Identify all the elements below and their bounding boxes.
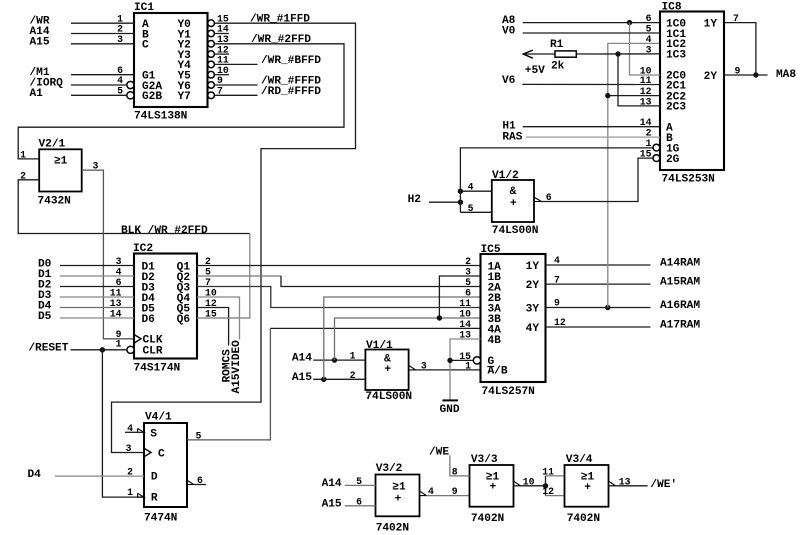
wire A16RAM riser to IC8 1C2 bbox=[608, 43, 660, 307]
svg-text:1: 1 bbox=[646, 138, 652, 149]
svg-text:A1: A1 bbox=[30, 88, 44, 100]
wire R1 riser to 2C3 bbox=[618, 54, 660, 106]
junction A8 bbox=[627, 20, 632, 25]
svg-text:+: + bbox=[584, 482, 591, 494]
svg-text:9: 9 bbox=[452, 486, 458, 497]
V3/2 output flag pin 4 wire to V3/3 pin 9 bbox=[420, 486, 470, 497]
nor-gate V3/3 7402N bbox=[470, 454, 514, 525]
svg-text:4: 4 bbox=[468, 182, 474, 193]
node A8 wire to IC8 1C0 bbox=[502, 15, 660, 27]
svg-text:/RD_#FFFD: /RD_#FFFD bbox=[261, 86, 321, 98]
nor-gate V3/4 7402N bbox=[565, 454, 609, 525]
node /M1 wire to IC1 pin 6 bbox=[30, 67, 135, 79]
node A14 wire to V3/2 pin 5 bbox=[322, 476, 376, 490]
junction G bbox=[447, 358, 452, 363]
multiplexer IC8 74LS253N body bbox=[660, 2, 724, 186]
node ROMCS vertical label bbox=[222, 349, 234, 383]
svg-text:74S174N: 74S174N bbox=[134, 362, 181, 374]
svg-text:A16RAM: A16RAM bbox=[660, 300, 700, 312]
node A15 wire to IC1 pin 3 bbox=[30, 36, 135, 48]
svg-text:5: 5 bbox=[468, 203, 474, 214]
svg-text:G2B: G2B bbox=[142, 91, 162, 103]
svg-text:MA8: MA8 bbox=[776, 69, 796, 81]
svg-text:2Y: 2Y bbox=[526, 280, 540, 292]
node V0 wire to IC8 1C1 bbox=[502, 26, 660, 38]
svg-text:4Y: 4Y bbox=[526, 323, 540, 335]
node H2 label and wire bbox=[408, 194, 461, 206]
svg-text:R1: R1 bbox=[550, 39, 564, 51]
svg-text:2C3: 2C3 bbox=[666, 102, 686, 114]
svg-text:≥1: ≥1 bbox=[54, 155, 68, 167]
node A14 wire to IC1 pin 2 bbox=[30, 26, 135, 38]
node /WE' label bbox=[650, 479, 677, 491]
svg-text:8: 8 bbox=[452, 467, 458, 478]
svg-text:V3/2: V3/2 bbox=[376, 463, 403, 475]
node A14 wire to V1/1 pin 1 bbox=[292, 351, 366, 365]
svg-text:3: 3 bbox=[126, 443, 132, 454]
node D5 wire to IC2 bbox=[38, 311, 134, 323]
ground symbol GND bbox=[440, 400, 460, 416]
svg-text:V4/1: V4/1 bbox=[145, 412, 172, 424]
wire V2/1 output pin 3 to IC2 CLK bbox=[82, 170, 134, 339]
node A15 wire to V3/2 pin 6 bbox=[322, 496, 376, 510]
svg-text:7402N: 7402N bbox=[471, 513, 504, 525]
net /WR_#BFFD wire from Y4 bbox=[214, 55, 321, 67]
IC1 input bubbles G2A G2B bbox=[127, 81, 134, 99]
svg-text:1: 1 bbox=[127, 487, 133, 498]
svg-text:A15RAM: A15RAM bbox=[660, 277, 700, 289]
svg-text:D5: D5 bbox=[38, 311, 52, 323]
or-gate V2/1 7432N bbox=[38, 139, 82, 208]
svg-text:4B: 4B bbox=[488, 335, 502, 347]
svg-text:CLR: CLR bbox=[143, 346, 163, 358]
IC8 left pin numbers bbox=[640, 13, 652, 160]
node /WE label and wire to V3/3 pin 8 bbox=[429, 446, 470, 477]
svg-text:74LS00N: 74LS00N bbox=[492, 225, 539, 237]
svg-text:D6: D6 bbox=[142, 314, 156, 326]
resistor R1 2k bbox=[550, 39, 576, 72]
wire Q1 to IC5 1A bbox=[197, 265, 481, 267]
svg-text:10: 10 bbox=[459, 309, 471, 320]
svg-text:R: R bbox=[151, 493, 158, 505]
svg-text:74LS138N: 74LS138N bbox=[134, 111, 187, 123]
IC1 left pin numbers 1 2 3 6 4 5 bbox=[117, 13, 123, 96]
wire Q3 to IC5 3A bbox=[197, 287, 481, 308]
svg-text:4: 4 bbox=[646, 34, 652, 45]
svg-text:A15: A15 bbox=[292, 372, 312, 384]
IC1 output bubbles Y0-Y7 bbox=[208, 20, 215, 99]
svg-text:A15: A15 bbox=[322, 499, 342, 511]
svg-text:5: 5 bbox=[356, 476, 362, 487]
svg-text:IC2: IC2 bbox=[133, 243, 153, 255]
svg-text:BLK /WR_#2FFD: BLK /WR_#2FFD bbox=[121, 225, 208, 237]
svg-text:2k: 2k bbox=[551, 60, 565, 72]
V4/1 pin number 4 and stub bbox=[125, 423, 138, 434]
svg-text:IC1: IC1 bbox=[134, 2, 154, 14]
node D0 wire to IC2 bbox=[38, 258, 134, 270]
svg-text:2: 2 bbox=[465, 256, 471, 267]
svg-text:74LS257N: 74LS257N bbox=[482, 386, 535, 398]
svg-text:74LS00N: 74LS00N bbox=[365, 391, 412, 403]
nor-gate V3/2 7402N bbox=[376, 463, 420, 535]
wire A15 riser to IC5 2B bbox=[324, 297, 481, 379]
svg-text:+: + bbox=[395, 494, 402, 506]
svg-text:10: 10 bbox=[523, 476, 535, 487]
svg-text:RAS: RAS bbox=[502, 132, 522, 144]
svg-text:11: 11 bbox=[542, 467, 554, 478]
svg-text:7432N: 7432N bbox=[38, 196, 71, 208]
wire Q6 to BLK riser bbox=[197, 317, 250, 319]
V2/1 pin number 3 bbox=[93, 160, 99, 171]
net /WR_#1FFD wire from Y0 to V4 clock bbox=[112, 14, 356, 453]
svg-text:+: + bbox=[510, 198, 517, 210]
svg-text:2G: 2G bbox=[666, 154, 680, 166]
V3/4 output flag pin 13 wire to /WE2 bbox=[609, 476, 648, 487]
node D1 wire to IC2 bbox=[38, 269, 134, 281]
net MA8 wire from IC8 2Y bbox=[724, 69, 796, 81]
IC8 1G 2G bubbles bbox=[653, 144, 660, 161]
node H1 wire to IC8 A bbox=[502, 121, 660, 133]
svg-text:ROMCS: ROMCS bbox=[222, 349, 234, 383]
svg-text:V1/2: V1/2 bbox=[492, 170, 519, 182]
wire stub Y5 bbox=[214, 74, 229, 76]
svg-text:6: 6 bbox=[465, 288, 471, 299]
svg-text:V0: V0 bbox=[502, 26, 516, 38]
svg-text:A14: A14 bbox=[322, 478, 342, 490]
wire A8 riser to 2C0 bbox=[630, 23, 661, 75]
svg-text:C: C bbox=[158, 448, 165, 460]
wire IC8 1Y to 2Y bbox=[724, 23, 756, 75]
IC2 pin number 9 CLK bbox=[116, 329, 122, 340]
svg-text:12: 12 bbox=[542, 486, 554, 497]
svg-text:A14: A14 bbox=[292, 353, 312, 365]
svg-text:/WR_#BFFD: /WR_#BFFD bbox=[261, 55, 321, 67]
junction R1 net bbox=[615, 51, 620, 56]
wire A14 riser to IC5 3B bbox=[335, 318, 481, 360]
wire H2 riser to IC8 1G bbox=[460, 148, 653, 212]
svg-text:1: 1 bbox=[20, 150, 26, 161]
node D4 wire to IC2 bbox=[38, 300, 134, 312]
svg-text:5: 5 bbox=[465, 277, 471, 288]
multiplexer IC5 74LS257N body bbox=[481, 244, 546, 398]
svg-text:1: 1 bbox=[116, 338, 122, 349]
wire /RESET riser to V4 R pin bbox=[102, 350, 144, 497]
junction V3/4 inputs bbox=[543, 483, 548, 488]
net /WR_#2FFD wire from Y2 to V2 pin 1 bbox=[18, 34, 344, 159]
IC2 CLR bubble bbox=[127, 346, 134, 353]
svg-text:15: 15 bbox=[640, 149, 652, 160]
svg-text:1C3: 1C3 bbox=[666, 50, 686, 62]
svg-text:D: D bbox=[151, 472, 158, 484]
svg-text:3: 3 bbox=[421, 360, 427, 371]
wire 2C2 to A16RAM riser bbox=[608, 95, 660, 97]
svg-text:4: 4 bbox=[428, 486, 434, 497]
svg-text:+5V: +5V bbox=[525, 65, 545, 77]
node /IORQ wire to IC1 pin 4 bbox=[30, 78, 127, 90]
node D3 wire to IC2 bbox=[38, 290, 134, 302]
wire IC5 G pin to ground riser bbox=[450, 359, 473, 361]
wire BLK net riser to IC2 Q6 bbox=[197, 234, 250, 319]
svg-text:D4: D4 bbox=[28, 469, 42, 481]
IC2 left pin numbers 3 4 6 11 13 14 bbox=[110, 256, 122, 320]
junction pin4 bbox=[458, 189, 463, 194]
net /WR_#FFFD wire from Y6 bbox=[214, 76, 321, 88]
svg-text:74LS253N: 74LS253N bbox=[662, 173, 715, 185]
svg-text:11: 11 bbox=[459, 298, 471, 309]
node /WR wire to IC1 pin 1 bbox=[30, 16, 135, 28]
nand-gate V1/2 74LS00N bbox=[492, 170, 539, 237]
svg-text:≥1: ≥1 bbox=[392, 482, 406, 494]
svg-text:+: + bbox=[490, 482, 497, 494]
wire R1 to IC8 1C3 bbox=[576, 53, 660, 55]
svg-text:3Y: 3Y bbox=[526, 303, 540, 315]
IC5 left pin numbers bbox=[459, 256, 471, 371]
power +5V arrow symbol bbox=[523, 50, 555, 77]
junction A15 bbox=[321, 377, 326, 382]
svg-text:/WE': /WE' bbox=[650, 479, 677, 491]
wire V1/2 pin 5 bbox=[460, 203, 491, 214]
IC8 right pin number 9 bbox=[735, 66, 741, 77]
svg-text:7474N: 7474N bbox=[144, 513, 177, 525]
V4 output pin 6 stub with inverter flag bbox=[187, 475, 206, 486]
svg-text:&: & bbox=[510, 186, 517, 198]
svg-text:7402N: 7402N bbox=[376, 523, 409, 535]
node /RESET label and wire to IC2 CLR bbox=[28, 342, 127, 354]
V3/3 output flag pin 10 wire bbox=[514, 476, 546, 487]
V1/2 output flag pin 6 wire to IC8 2G bbox=[534, 158, 653, 203]
junction MA8 bbox=[753, 72, 758, 77]
IC2 right pin numbers 2 5 7 10 12 15 bbox=[205, 256, 217, 320]
net A15RAM wire from IC5 2Y bbox=[546, 277, 701, 289]
wire V2/1 pin 2 to BLK net bbox=[18, 180, 250, 234]
svg-text:2: 2 bbox=[350, 370, 356, 381]
wire V1/2 pin 4 bbox=[460, 182, 491, 193]
IC5 G bubble bbox=[473, 357, 480, 364]
wire riser to V3/4 pins 11 12 bbox=[542, 467, 564, 498]
wire IC5 1B drop to 3B bbox=[439, 276, 480, 318]
svg-text:A17RAM: A17RAM bbox=[660, 320, 700, 332]
junction 2C2 bbox=[605, 93, 610, 98]
svg-text:V2/1: V2/1 bbox=[39, 139, 66, 151]
node A15 wire to V1/1 pin 2 bbox=[292, 370, 366, 384]
V2/1 pin number 1 bbox=[20, 150, 26, 161]
svg-text:V3/3: V3/3 bbox=[471, 454, 498, 466]
svg-text:/RESET: /RESET bbox=[28, 342, 68, 354]
wire stub Y1 bbox=[214, 33, 229, 35]
node D4 wire to V4 D input bbox=[28, 469, 145, 481]
node D2 wire to IC2 bbox=[38, 279, 134, 291]
node V6 wire to IC8 2C1 bbox=[502, 75, 660, 87]
net /RD_#FFFD wire from Y7 bbox=[214, 86, 321, 98]
node RAS wire to IC8 B bbox=[502, 132, 660, 144]
svg-text:6: 6 bbox=[356, 496, 362, 507]
wire stub Y3 bbox=[214, 53, 229, 55]
svg-text:A15: A15 bbox=[30, 36, 50, 48]
svg-text:/WE: /WE bbox=[429, 446, 449, 458]
IC5 right pin numbers 4 7 9 12 bbox=[554, 255, 566, 328]
svg-text:IC8: IC8 bbox=[662, 2, 682, 14]
svg-text:Q6: Q6 bbox=[177, 314, 191, 326]
V4/1 pin number 1 bbox=[127, 487, 133, 498]
svg-text:V3/4: V3/4 bbox=[566, 454, 593, 466]
svg-text:A14RAM: A14RAM bbox=[660, 258, 700, 270]
svg-text:IC5: IC5 bbox=[481, 244, 501, 256]
wire Q2 to IC5 2A bbox=[197, 276, 481, 287]
svg-text:A/B: A/B bbox=[488, 366, 508, 378]
svg-text:V6: V6 bbox=[502, 75, 516, 87]
junction H2 bbox=[458, 200, 463, 205]
node A15VIDEO vertical label bbox=[231, 340, 243, 394]
wire Q5 to label ROMCS bbox=[197, 308, 229, 346]
net A17RAM wire from IC5 4Y bbox=[546, 320, 701, 332]
net A16RAM wire from IC5 3Y bbox=[546, 300, 701, 312]
svg-text:C: C bbox=[142, 40, 149, 52]
svg-text:1Y: 1Y bbox=[526, 261, 540, 273]
wire Q4 to label A15VIDEO bbox=[197, 297, 240, 340]
junction 1B-3B bbox=[437, 315, 442, 320]
V4/1 pin number 2 bbox=[127, 467, 133, 478]
junction A14 bbox=[332, 357, 337, 362]
IC2 pin number 1 CLR bbox=[116, 338, 122, 349]
nand-gate V1/1 74LS00N bbox=[365, 340, 412, 403]
net A14RAM wire from IC5 1Y bbox=[546, 258, 701, 270]
IC1 right pin numbers 15 14 13 12 11 10 9 7 bbox=[217, 13, 229, 96]
junction /RESET bbox=[100, 347, 105, 352]
d-flip-flop V4/1 7474N body bbox=[138, 412, 187, 525]
node A1 wire to IC1 pin 5 bbox=[30, 88, 127, 100]
svg-text:S: S bbox=[150, 429, 157, 441]
svg-text:H2: H2 bbox=[408, 194, 422, 206]
junction A16RAM bbox=[605, 305, 610, 310]
hex flip-flop IC2 74S174N body bbox=[133, 243, 197, 374]
svg-text:2Y: 2Y bbox=[704, 71, 718, 83]
IC8 right pin number 7 bbox=[733, 13, 739, 24]
svg-text:Y7: Y7 bbox=[178, 91, 191, 103]
svg-text:1: 1 bbox=[350, 351, 356, 362]
svg-text:+: + bbox=[384, 364, 391, 376]
V2/1 pin number 2 bbox=[20, 171, 26, 182]
wire IC5 4B to ground riser bbox=[450, 339, 481, 400]
svg-text:14: 14 bbox=[459, 319, 471, 330]
net BLK /WR_#2FFD label bbox=[121, 225, 208, 237]
svg-text:V1/1: V1/1 bbox=[366, 340, 393, 352]
V4/1 pin number 3 bbox=[126, 443, 132, 454]
svg-text:1: 1 bbox=[465, 360, 471, 371]
wire V4 output Q pin 5 to IC5 4A bbox=[187, 328, 481, 441]
svg-text:1Y: 1Y bbox=[704, 18, 718, 30]
svg-text:13: 13 bbox=[619, 476, 631, 487]
V1/1 output flag and pin 3 wire to IC5 A/B bbox=[409, 360, 481, 371]
decoder IC1 74LS138N body bbox=[134, 2, 208, 123]
svg-text:7402N: 7402N bbox=[567, 513, 600, 525]
svg-text:GND: GND bbox=[440, 404, 460, 416]
